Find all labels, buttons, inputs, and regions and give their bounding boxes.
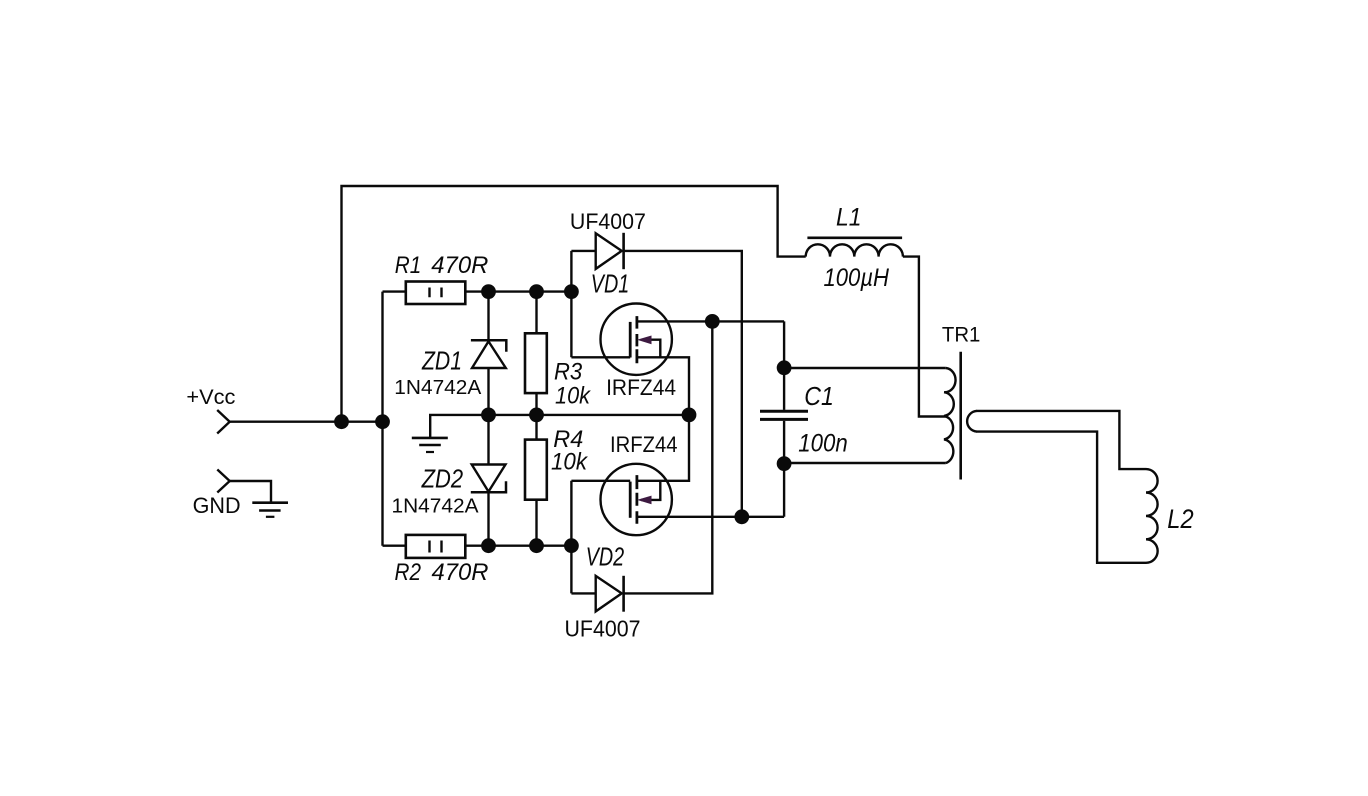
diode VD2 (UF4007): [596, 576, 624, 612]
ground symbol (input): [252, 503, 288, 517]
inductor L1 coil: [806, 244, 903, 256]
resistor R1: [406, 282, 466, 305]
wire: R2 left lead: [383, 545, 406, 547]
wire: tank top to TR1 primary top: [784, 367, 946, 369]
wire: Q2 drain: [637, 516, 784, 518]
MOSFET Q1 (IRFZ44): [601, 304, 672, 375]
svg-text:IRFZ44: IRFZ44: [606, 375, 676, 400]
zener diode ZD2: [471, 465, 506, 493]
wire: C1 bottom lead: [783, 421, 785, 517]
svg-text:TR1: TR1: [942, 322, 981, 346]
svg-text:GND: GND: [193, 493, 241, 518]
svg-text:1N4742A: 1N4742A: [394, 376, 481, 399]
svg-text:470R: 470R: [432, 559, 489, 586]
junction dot: C1 bottom / tank bottom: [777, 456, 792, 471]
wire: VD2 cathode across and up to Q1 drain: [624, 321, 713, 593]
svg-text:100n: 100n: [798, 429, 848, 457]
wire: R1 right lead to Q1 gate node: [465, 290, 571, 292]
junction dot: GND/R3-R4: [529, 408, 544, 423]
GND rail (middle): [430, 415, 689, 438]
junction dot: R2/ZD2: [481, 538, 496, 553]
ground symbol (middle): [412, 438, 448, 452]
resistor R2: [406, 535, 466, 558]
MOSFET Q2 (IRFZ44): [601, 464, 672, 535]
GND connector arrow: [217, 470, 229, 493]
svg-text:100µH: 100µH: [824, 264, 890, 292]
wire: ZD1 branch vertical: [487, 292, 489, 415]
svg-text:L1: L1: [836, 204, 862, 232]
wire: VD1 anode lead: [571, 250, 595, 252]
svg-text:10k: 10k: [555, 383, 592, 410]
wire: C1 top lead: [783, 321, 785, 410]
wire: tank bottom to TR1 primary bottom: [784, 462, 946, 464]
wire: secondary top lead to L2: [976, 411, 1146, 469]
wire: Q1 gate lead: [571, 356, 630, 358]
wire: top rail from Vcc node up, across, and down to L1: [342, 186, 806, 422]
wire: L1 to TR1 primary center tap: [903, 257, 946, 417]
wire: Q2 gate node vertical: [570, 481, 572, 594]
svg-text:470R: 470R: [431, 252, 488, 279]
wire: Q1 source to GND rail: [637, 357, 689, 415]
junction dot: R1/R3: [529, 284, 544, 299]
junction dot: R1/ZD1: [481, 284, 496, 299]
wire: R3 bottom lead: [535, 393, 537, 415]
svg-text:1N4742A: 1N4742A: [392, 495, 479, 518]
zener diode ZD1: [471, 340, 506, 368]
junction dot: Q1 drain / feedback to VD2: [705, 314, 720, 329]
inductor L2 coil: [1146, 469, 1158, 563]
resistor R4: [525, 440, 547, 500]
transformer TR1 secondary tap hook: [967, 411, 976, 432]
svg-text:R1: R1: [395, 252, 422, 279]
svg-text:ZD1: ZD1: [421, 345, 462, 375]
junction dot: GND/ZD: [481, 408, 496, 423]
svg-text:R3: R3: [554, 359, 583, 386]
junction dot: Vcc / R1-R2 feed: [375, 414, 390, 429]
svg-text:VD1: VD1: [591, 270, 630, 298]
+Vcc connector arrow: [217, 410, 230, 434]
diode VD1 (UF4007): [596, 233, 624, 269]
svg-text:VD2: VD2: [586, 543, 625, 571]
wire: Vcc input rail: [230, 421, 383, 423]
svg-text:L2: L2: [1167, 504, 1194, 534]
wire: Q2 gate lead: [571, 480, 630, 482]
junction dot: Vcc / top rail: [334, 414, 349, 429]
transformer TR1 primary winding: [944, 368, 956, 463]
junction dot: R2/R4: [529, 538, 544, 553]
wire: Q2 source to GND rail: [637, 415, 689, 481]
junction dot: GND/MOSFET sources: [682, 408, 697, 423]
junction dot: C1 top / tank top: [777, 360, 792, 375]
L1 core bar: [807, 237, 902, 240]
junction dot: R2 rail / VD2-gate vertical: [564, 538, 579, 553]
junction dot: VD1 to Q2 drain: [734, 509, 749, 524]
svg-text:+Vcc: +Vcc: [186, 386, 235, 409]
wire: R1 left lead: [383, 290, 406, 292]
wire: ZD2 branch vertical: [487, 415, 489, 546]
wire: VD2 anode lead: [571, 592, 595, 594]
wire: R4 bottom lead: [535, 500, 537, 546]
wire: secondary bottom lead: [976, 432, 1146, 563]
wire: R2 right lead to Q2 gate node: [465, 545, 571, 547]
svg-text:ZD2: ZD2: [421, 463, 464, 493]
wire: R3 top lead: [535, 292, 537, 334]
svg-text:UF4007: UF4007: [570, 209, 646, 234]
wire: R4 top lead: [535, 415, 537, 440]
svg-text:UF4007: UF4007: [565, 616, 641, 642]
junction dot: R1 rail / VD1-gate vertical: [564, 284, 579, 299]
capacitor C1: [760, 411, 808, 419]
transformer TR1 core: [959, 352, 962, 480]
svg-text:R2: R2: [395, 559, 422, 586]
svg-text:C1: C1: [804, 383, 834, 411]
resistor R3: [525, 333, 547, 393]
svg-text:10k: 10k: [551, 449, 589, 476]
wire: Q1 gate node vertical (VD1 anode to gate): [570, 251, 572, 357]
wire: VD1 cathode across and down to Q2 drain: [624, 251, 742, 517]
svg-text:IRFZ44: IRFZ44: [610, 432, 678, 457]
wire: R1/R2 feed vertical: [381, 292, 383, 546]
wire: GND input lead: [230, 481, 271, 502]
wire: Q1 drain: [637, 320, 784, 322]
